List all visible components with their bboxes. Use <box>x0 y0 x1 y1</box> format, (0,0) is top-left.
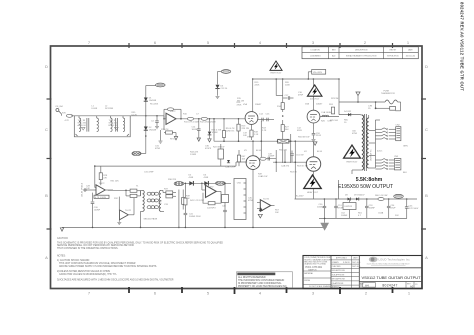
svg-text:6.17K: 6.17K <box>132 115 138 117</box>
svg-text:56K: 56K <box>285 129 289 131</box>
connector oval 3-pin secondary <box>174 182 184 186</box>
svg-text:630V: 630V <box>297 130 302 132</box>
svg-text:100NF 250V: 100NF 250V <box>189 216 201 218</box>
svg-text:FUSE: FUSE <box>384 91 390 93</box>
wire B+ bus <box>253 78 339 80</box>
svg-text:A00: A00 <box>332 55 335 58</box>
svg-text:16220 WOOD RED ROAD WOODINVILL: 16220 WOOD RED ROAD WOODINVILLE WA 98072 <box>367 262 410 265</box>
title block left cell: company address <box>303 256 332 288</box>
resistor network below op-amp <box>159 119 178 143</box>
title block logo row <box>359 257 422 268</box>
resistor network after T1 <box>163 189 176 198</box>
svg-text:1N4148: 1N4148 <box>149 130 157 132</box>
resistor R13 to bias line <box>237 118 249 141</box>
svg-text:2007-10-30: 2007-10-30 <box>406 56 415 58</box>
boxed label below op-amp <box>94 195 109 199</box>
transformer secondary taps <box>369 115 380 168</box>
wire PSU bottom rail <box>319 217 407 219</box>
svg-text:B: B <box>45 193 48 198</box>
resistor R41 <box>184 183 204 211</box>
wire taps to connector CN3 <box>375 159 394 170</box>
capacitor C53 <box>365 198 376 218</box>
capacitor C14 drop to ground <box>192 118 201 141</box>
resistor R16 to bias line <box>222 118 235 141</box>
label cluster bus left <box>255 82 304 96</box>
svg-text:AGENCY: AGENCY <box>332 286 340 289</box>
op-amp U3B TL072 <box>119 197 134 220</box>
labels transformer area <box>344 119 408 173</box>
svg-text:1000UF: 1000UF <box>317 206 325 208</box>
chassis arrow above transformer <box>356 92 360 103</box>
connector CN_IN4 input jack <box>55 106 63 116</box>
warning triangle near output <box>304 175 321 194</box>
svg-text:SERVICE PERSONNEL. DO NOT PERF: SERVICE PERSONNEL. DO NOT PERFORM ANY SE… <box>57 244 134 247</box>
labels PSU extra <box>296 195 399 216</box>
diode D7 drop to ground <box>208 118 222 142</box>
svg-text:ENG APPROVE: ENG APPROVE <box>332 269 346 272</box>
resistor R39 <box>182 190 191 210</box>
svg-text:4.7K 100V: 4.7K 100V <box>409 208 419 210</box>
svg-text:C53A: C53A <box>378 211 384 214</box>
svg-text:GRN: GRN <box>403 145 408 147</box>
svg-text:100NF: 100NF <box>94 209 101 211</box>
svg-text:HV+420V: HV+420V <box>313 72 323 74</box>
svg-text:470PF: 470PF <box>205 148 212 150</box>
svg-text:FINISH: FINISH <box>304 280 311 282</box>
copyright block <box>237 272 293 288</box>
op-amp U5 servo <box>257 198 275 218</box>
svg-text:AND BE SURE POWER SUPPLY IS DI: AND BE SURE POWER SUPPLY IS DISCHARGED B… <box>59 265 157 268</box>
svg-text:22UF: 22UF <box>391 207 397 209</box>
ground PSU <box>320 218 329 231</box>
svg-text:5.5K:8ohm: 5.5K:8ohm <box>356 177 383 183</box>
capacitor C41 <box>184 210 202 227</box>
svg-text:B: B <box>425 193 428 198</box>
svg-text:V3B: V3B <box>247 137 252 139</box>
label cluster left of V1 <box>237 102 242 106</box>
net label box HV <box>308 70 326 80</box>
resistor R14 on center drop <box>277 103 284 117</box>
zone tick marks bottom border <box>129 287 393 294</box>
zone labels bottom <box>88 291 411 296</box>
svg-text:R31 10K: R31 10K <box>111 180 120 182</box>
svg-text:LOCATION: LOCATION <box>311 49 321 52</box>
svg-text:D4 UF2: D4 UF2 <box>344 111 352 113</box>
svg-text:2.2K: 2.2K <box>262 130 267 132</box>
svg-text:VS0112 TUBE GUITAR OUTPUT: VS0112 TUBE GUITAR OUTPUT <box>361 275 421 280</box>
resistor R12 on rail <box>200 117 216 123</box>
resistor R28 feedback <box>94 165 108 185</box>
svg-text:1N4148: 1N4148 <box>149 100 157 102</box>
op-amp U2 TL072 <box>163 111 176 124</box>
svg-text:TL072: TL072 <box>99 183 106 185</box>
svg-text:A: A <box>45 255 48 260</box>
svg-text:QA APPROVE: QA APPROVE <box>332 282 344 285</box>
label cluster above rail <box>150 103 200 115</box>
svg-text:1/10W: 1/10W <box>212 132 218 134</box>
svg-text:DESCRIPTION: DESCRIPTION <box>355 50 368 52</box>
wire bias line to output stage <box>213 118 313 142</box>
resistor network left of V3 <box>237 150 246 166</box>
svg-text:R22 WZ 1W: R22 WZ 1W <box>213 147 224 149</box>
svg-text:100K: 100K <box>285 85 290 87</box>
revision table <box>302 47 418 59</box>
diode D6 <box>204 175 209 186</box>
wire vertical bias branch <box>145 86 147 116</box>
svg-text:12AX7: 12AX7 <box>316 103 323 106</box>
triode V2 <box>305 103 323 130</box>
svg-text:1/2W 5%: 1/2W 5% <box>226 131 235 133</box>
svg-text:R23 1M: R23 1M <box>331 98 339 100</box>
svg-text:CHECKED: CHECKED <box>332 266 341 268</box>
svg-text:1) CAUTION SHOCK HAZARD: 1) CAUTION SHOCK HAZARD <box>57 259 90 262</box>
regulator module <box>343 199 356 218</box>
svg-text:V2A: V2A <box>305 103 310 106</box>
svg-text:NOTES:: NOTES: <box>57 256 66 258</box>
zone labels left <box>45 64 48 260</box>
svg-text:ELE APPROVE: ELE APPROVE <box>332 273 345 276</box>
caution and notes text block <box>57 237 223 282</box>
wire to supply flag <box>146 85 156 87</box>
capacitor C51 <box>334 198 343 218</box>
svg-text:100NF: 100NF <box>341 215 348 217</box>
wire V1 plate drop <box>252 78 254 111</box>
svg-text:47K: 47K <box>103 177 107 179</box>
svg-text:47NF: 47NF <box>298 94 304 96</box>
svg-text:CN_IN4: CN_IN4 <box>55 106 63 108</box>
svg-text:2)UNLESS NOTED,RESISTOR VALUES: 2)UNLESS NOTED,RESISTOR VALUES IN OHMS <box>57 270 110 273</box>
svg-text:6.8K: 6.8K <box>328 121 333 123</box>
svg-text:HIGH VOLT: HIGH VOLT <box>346 161 358 163</box>
svg-text:47NF: 47NF <box>248 200 254 202</box>
svg-text:100NF: 100NF <box>268 156 275 158</box>
svg-text:EL34: EL34 <box>256 150 262 152</box>
power tube V4 <box>304 141 323 199</box>
resistor R70 <box>62 113 73 122</box>
svg-text:R50 470: R50 470 <box>279 149 288 151</box>
diode D2 <box>144 127 157 132</box>
svg-text:DATE: DATE <box>353 257 358 260</box>
svg-text:TL072: TL072 <box>263 198 270 200</box>
chassis arrow on bias line <box>313 142 317 145</box>
svg-text:8024247 REV.A0 VS0112 TUBE GTR: 8024247 REV.A0 VS0112 TUBE GTR OUT <box>460 2 465 91</box>
zone tick marks side borders <box>47 99 427 229</box>
svg-text:47NF: 47NF <box>352 133 358 135</box>
svg-text:100NF: 100NF <box>369 207 376 209</box>
resistor bias cluster left of V3 <box>213 144 236 169</box>
labels output stage <box>237 137 298 214</box>
driver transformer T1 <box>141 190 165 227</box>
svg-text:10K: 10K <box>242 159 246 161</box>
svg-text:C51 1W: C51 1W <box>296 155 304 157</box>
svg-text:D9 1N4007: D9 1N4007 <box>354 194 365 196</box>
connector oval 3-pin <box>132 151 146 155</box>
svg-text:2007-10-9: 2007-10-9 <box>352 262 360 264</box>
svg-text:2007-10-9: 2007-10-9 <box>352 266 360 268</box>
output transformer T2 <box>352 114 372 174</box>
resistor R24 right of V2 <box>329 104 335 114</box>
diode D9 <box>354 194 365 200</box>
svg-text:THIS SCHEMATIC IS PROVIDED FOR: THIS SCHEMATIC IS PROVIDED FOR USE BY QU… <box>57 241 223 244</box>
net flag right 3-pin <box>216 181 226 185</box>
feedback loop around U4 <box>203 191 221 209</box>
wire V2 coupling drop <box>290 134 292 163</box>
title block: drawing title <box>359 275 422 281</box>
svg-text:R12 2200 1/10W: R12 2200 1/10W <box>200 122 216 124</box>
svg-text:47NF: 47NF <box>155 148 161 150</box>
svg-text:LOUDWENG: LOUDWENG <box>310 56 321 58</box>
svg-text:CN_IN 1/VDC6: CN_IN 1/VDC6 <box>81 182 83 197</box>
resistor R27 below center <box>281 125 289 132</box>
diode D1 <box>144 98 157 103</box>
svg-text:4ohm: 4ohm <box>377 150 382 152</box>
svg-text:S.ZHOU: S.ZHOU <box>343 262 350 264</box>
svg-text:BLK: BLK <box>403 172 408 174</box>
svg-text:1.5K: 1.5K <box>254 134 259 136</box>
capacitor C55 end <box>405 198 419 218</box>
svg-text:DATE: DATE <box>408 49 413 52</box>
svg-text:R7 4.7K: R7 4.7K <box>161 129 169 131</box>
power flag +15V <box>156 83 166 87</box>
svg-text:OUTPUT TX: OUTPUT TX <box>370 149 372 161</box>
shield enclosure box around input transformers <box>74 116 130 137</box>
svg-text:LOUD Technologies Inc: LOUD Technologies Inc <box>379 258 411 262</box>
capacitor C18 below V2 <box>312 130 322 142</box>
op-amp U3A TL072 <box>95 166 113 195</box>
resistor box on bias line <box>277 137 310 144</box>
svg-text:A 470.18: A 470.18 <box>78 124 87 127</box>
svg-text:50V: 50V <box>395 215 399 217</box>
svg-text:STEVE ZHOU: STEVE ZHOU <box>387 56 399 58</box>
ground arrow left end <box>60 228 63 231</box>
labels below tubes row <box>243 127 302 136</box>
svg-text:B 470.18: B 470.18 <box>109 125 118 127</box>
labels drive stage <box>86 171 177 205</box>
label output impedance <box>356 177 383 183</box>
resistor R45 <box>222 183 229 228</box>
svg-text:SE1000 PAGE: SE1000 PAGE <box>144 217 158 220</box>
svg-text:RC12BK: RC12BK <box>105 108 114 110</box>
svg-text:PROPERTY OF LOUD TECHNOLOGIES: PROPERTY OF LOUD TECHNOLOGIES INC <box>238 285 287 288</box>
wire feedback bus <box>95 165 236 167</box>
capacitor C17 mid <box>283 95 294 100</box>
wire bus to output transformer <box>338 78 340 114</box>
svg-text:DO NOT SCALE DRAWING: DO NOT SCALE DRAWING <box>309 285 332 288</box>
svg-text:LOAD 1W: LOAD 1W <box>258 175 267 178</box>
wire T1 bottom to ground bus <box>92 227 254 229</box>
wire D3 to ground <box>217 88 219 95</box>
labels drive mid extra <box>155 145 212 156</box>
svg-text:DRAWN: DRAWN <box>332 261 339 264</box>
svg-text:4.7K: 4.7K <box>65 120 70 122</box>
svg-text:R53 1K: R53 1K <box>290 172 298 174</box>
vertical after T1 to ground <box>178 190 180 229</box>
svg-text:TL072: TL072 <box>170 111 177 113</box>
label cluster near V2 right <box>321 98 339 123</box>
zone tick marks top border <box>129 43 393 48</box>
connector CN2 speaker <box>396 124 401 140</box>
svg-text:B+420V: B+420V <box>296 195 304 197</box>
diode D3 <box>215 85 228 90</box>
fuse and thermistor network <box>339 91 401 111</box>
svg-text:R56 WZ 1W: R56 WZ 1W <box>298 137 309 139</box>
power flag +15V PSU <box>394 194 404 199</box>
svg-text:THAT CONTAINED IN THE OPERATIN: THAT CONTAINED IN THE OPERATING INSTRUCT… <box>57 247 119 250</box>
ground below U3B <box>117 220 121 225</box>
border frame <box>51 46 423 289</box>
svg-text:C2A 470: C2A 470 <box>281 165 290 168</box>
svg-text:C2A 2.2UF: C2A 2.2UF <box>225 166 236 169</box>
svg-text:R41 1.78 1/2W: R41 1.78 1/2W <box>190 200 204 202</box>
svg-text:C43 NPO: C43 NPO <box>207 207 216 209</box>
wire taps to connector CN2 <box>375 128 395 140</box>
svg-text:V1A: V1A <box>243 103 248 106</box>
warning triangle high voltage upper <box>270 61 282 74</box>
diode D8 <box>345 194 350 200</box>
svg-text:R36 22K: R36 22K <box>168 179 177 181</box>
label output rating <box>338 184 393 190</box>
svg-text:220K: 220K <box>255 85 260 87</box>
resistor R60 <box>375 195 387 200</box>
svg-text:8024247: 8024247 <box>382 284 397 288</box>
ground below D3 <box>216 96 220 98</box>
svg-text:100NF: 100NF <box>192 129 199 131</box>
svg-text:4.7K 1/10W: 4.7K 1/10W <box>95 197 106 199</box>
svg-text:400 VOLT: 400 VOLT <box>310 99 320 101</box>
wire V1 coupling drop <box>261 121 263 158</box>
wire V2 plate drop <box>313 78 315 110</box>
warning triangle high voltage mid <box>307 85 322 101</box>
svg-text:CAUTION:: CAUTION: <box>57 237 68 240</box>
capacitor C30 <box>91 193 101 228</box>
svg-text:A0: A0 <box>410 285 414 289</box>
svg-text:C31 47NF: C31 47NF <box>144 171 154 173</box>
label load <box>258 174 267 178</box>
svg-text:APPROVALS: APPROVALS <box>336 257 348 260</box>
svg-text:MFG APPROVE: MFG APPROVE <box>332 278 346 281</box>
wire into V3 grid <box>236 162 247 166</box>
svg-text:DGX8: DGX8 <box>92 108 99 110</box>
grid network V4 <box>273 150 308 172</box>
warning triangle near transformer <box>344 145 361 163</box>
svg-text:1/1: 1/1 <box>415 284 418 286</box>
capacitor pair V3 V4 <box>260 153 276 160</box>
svg-text:C13 10: C13 10 <box>221 88 229 90</box>
power flag -15V with LED branch <box>218 70 231 85</box>
inductor L5A output of V2 <box>320 111 339 122</box>
capacitor C54 <box>387 198 396 218</box>
wire lower diode branch <box>145 116 147 154</box>
wire clip rail <box>184 182 231 184</box>
svg-text:TL072: TL072 <box>125 210 132 212</box>
svg-text:THERMISTOR: THERMISTOR <box>381 93 395 95</box>
op-amp U4 TL072 <box>201 183 221 198</box>
module box output stage <box>234 179 246 220</box>
diode D5 <box>189 175 194 186</box>
svg-text:R5 220K: R5 220K <box>150 103 159 105</box>
resistor R35 label <box>132 112 138 116</box>
svg-text:R11 4.7K 1/10W: R11 4.7K 1/10W <box>184 122 199 124</box>
svg-text:22UF: 22UF <box>316 135 322 137</box>
resistor R8 feedback <box>164 108 182 120</box>
transformer L1 <box>78 106 99 132</box>
triode V1 <box>243 103 262 130</box>
resistor R18 below V1 <box>250 130 259 140</box>
wire enclosure right edge <box>337 180 339 199</box>
svg-text:P/N 1 CIT3 001: P/N 1 CIT3 001 <box>306 266 323 269</box>
resistor pair R30 R31 <box>125 189 140 197</box>
wire center drop <box>275 78 283 163</box>
svg-text:A4: A4 <box>365 283 369 287</box>
svg-text:INITIAL RELEASE TO PRODUCTION: INITIAL RELEASE TO PRODUCTION <box>346 55 377 58</box>
svg-text:HIGH VOLT: HIGH VOLT <box>307 192 319 194</box>
svg-text:MATERIAL: MATERIAL <box>304 272 313 275</box>
wire U3A output to transformer <box>108 189 130 191</box>
label R15 <box>237 98 244 102</box>
svg-text:3)VOLTAGES ARE MEASURED WITH 1: 3)VOLTAGES ARE MEASURED WITH 1 MEGOHM OS… <box>57 279 174 282</box>
connector CN3 speaker <box>394 156 401 170</box>
zone labels right <box>425 64 428 260</box>
svg-text:22K 1W: 22K 1W <box>242 128 249 130</box>
wire ground bus <box>62 226 327 228</box>
svg-text:R60 1.2K 3W: R60 1.2K 3W <box>375 195 387 197</box>
resistor R11 on rail <box>184 117 199 123</box>
node junction on rail <box>145 115 147 117</box>
capacitor coupling pair between V1 V2 <box>258 114 274 122</box>
capacitor C50 <box>317 198 326 218</box>
svg-text:D: D <box>425 64 428 69</box>
svg-text:L5A 10UH: L5A 10UH <box>322 111 332 114</box>
svg-text:470K: 470K <box>237 105 242 107</box>
svg-text:CAPACITOR VALUES IN MICROFARAD: CAPACITOR VALUES IN MICROFARADS(D), THK … <box>59 273 117 276</box>
wire main input rail <box>71 116 245 119</box>
right margin vertical part number text <box>460 2 465 91</box>
svg-text:R9 1K: R9 1K <box>170 139 176 141</box>
capacitor C4 before op-amp <box>151 115 159 129</box>
svg-text:12AX7: 12AX7 <box>255 103 262 106</box>
input net CN_IN vertical label <box>81 182 96 197</box>
title block middle cell: approvals grid <box>331 256 360 289</box>
svg-text:10K: 10K <box>275 212 279 214</box>
svg-text:HIGH VOLT: HIGH VOLT <box>270 72 282 74</box>
svg-text:1/10W: 1/10W <box>190 154 196 156</box>
zone labels top <box>88 40 410 45</box>
title block <box>303 256 422 289</box>
diode D4 in plate line <box>339 111 360 116</box>
svg-text:C: C <box>45 127 48 132</box>
svg-text:REV BY: REV BY <box>390 50 397 52</box>
transformer L2 <box>105 106 125 132</box>
svg-text:EL34: EL34 <box>317 151 323 153</box>
svg-text:A: A <box>425 255 428 260</box>
power tube V3 <box>244 141 262 227</box>
svg-text:THIS UNIT CONTAINS HAZARDOUS V: THIS UNIT CONTAINS HAZARDOUS VOLTAGE, DI… <box>59 262 136 265</box>
wire output stage feed <box>294 141 296 199</box>
svg-text:E195X50 50W OUTPUT: E195X50 50W OUTPUT <box>338 184 393 190</box>
title block: number row <box>360 282 418 289</box>
svg-text:LM7815: LM7815 <box>345 206 353 208</box>
svg-text:C: C <box>425 127 428 132</box>
svg-text:D: D <box>45 64 48 69</box>
wire PSU top rail <box>295 198 418 200</box>
